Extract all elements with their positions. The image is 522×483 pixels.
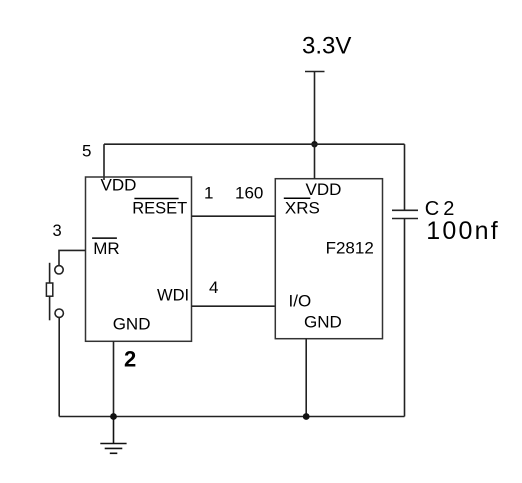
- svg-text:RESET: RESET: [132, 200, 187, 218]
- switch S1 bottom terminal circle: [55, 309, 63, 317]
- wire: switch bottom to ground rail: [58, 317, 60, 416]
- svg-text:1: 1: [204, 184, 213, 203]
- capacitor C2 plates: [392, 209, 418, 211]
- svg-text:GND: GND: [113, 314, 151, 333]
- wire: power bar down to node: [314, 72, 316, 145]
- svg-text:160: 160: [235, 184, 263, 203]
- svg-text:I/O: I/O: [289, 292, 312, 311]
- power rail symbol bar: [305, 71, 325, 73]
- wire: node to U2 VDD pin: [314, 144, 316, 179]
- svg-text:2: 2: [124, 347, 136, 372]
- svg-text:5: 5: [82, 142, 91, 161]
- svg-text:VDD: VDD: [101, 175, 137, 194]
- svg-text:F2812: F2812: [326, 239, 374, 258]
- wire: RESET to XRS: [192, 215, 276, 217]
- IC U2 body (F2812): [275, 179, 382, 339]
- switch S1 top terminal circle: [55, 266, 63, 274]
- ground symbol: [100, 417, 126, 454]
- svg-text:4: 4: [209, 278, 218, 297]
- node junction dot (3.3V net): [311, 141, 317, 147]
- svg-text:3.3V: 3.3V: [302, 33, 351, 60]
- svg-text:MR: MR: [93, 239, 119, 258]
- switch S1 actuator bar: [49, 263, 51, 321]
- wire: U1 GND pin down: [113, 341, 115, 416]
- svg-text:3: 3: [53, 222, 62, 240]
- wire: U2 GND pin down: [305, 339, 307, 417]
- svg-text:VDD: VDD: [306, 180, 342, 199]
- wire: capacitor branch down from top rail: [404, 144, 406, 210]
- wire: bottom ground rail: [59, 416, 404, 418]
- wire: capacitor bottom to ground rail: [404, 219, 406, 417]
- wire: top horizontal 3.3V net: [104, 143, 405, 145]
- svg-text:XRS: XRS: [285, 199, 320, 218]
- svg-text:100nf: 100nf: [426, 217, 500, 245]
- svg-text:GND: GND: [304, 312, 342, 331]
- wire: pin 5 drop into U1 VDD: [103, 144, 105, 180]
- switch S1 plunger rectangle: [46, 283, 52, 296]
- wire: WDI to I/O: [192, 305, 276, 307]
- svg-text:WDI: WDI: [157, 286, 189, 304]
- node junction dot (U2 GND at rail): [303, 413, 310, 420]
- wire: MR pin out left: [59, 250, 86, 265]
- IC U1 body (reset supervisor): [86, 177, 192, 341]
- node junction dot (U1 GND at rail): [110, 413, 117, 420]
